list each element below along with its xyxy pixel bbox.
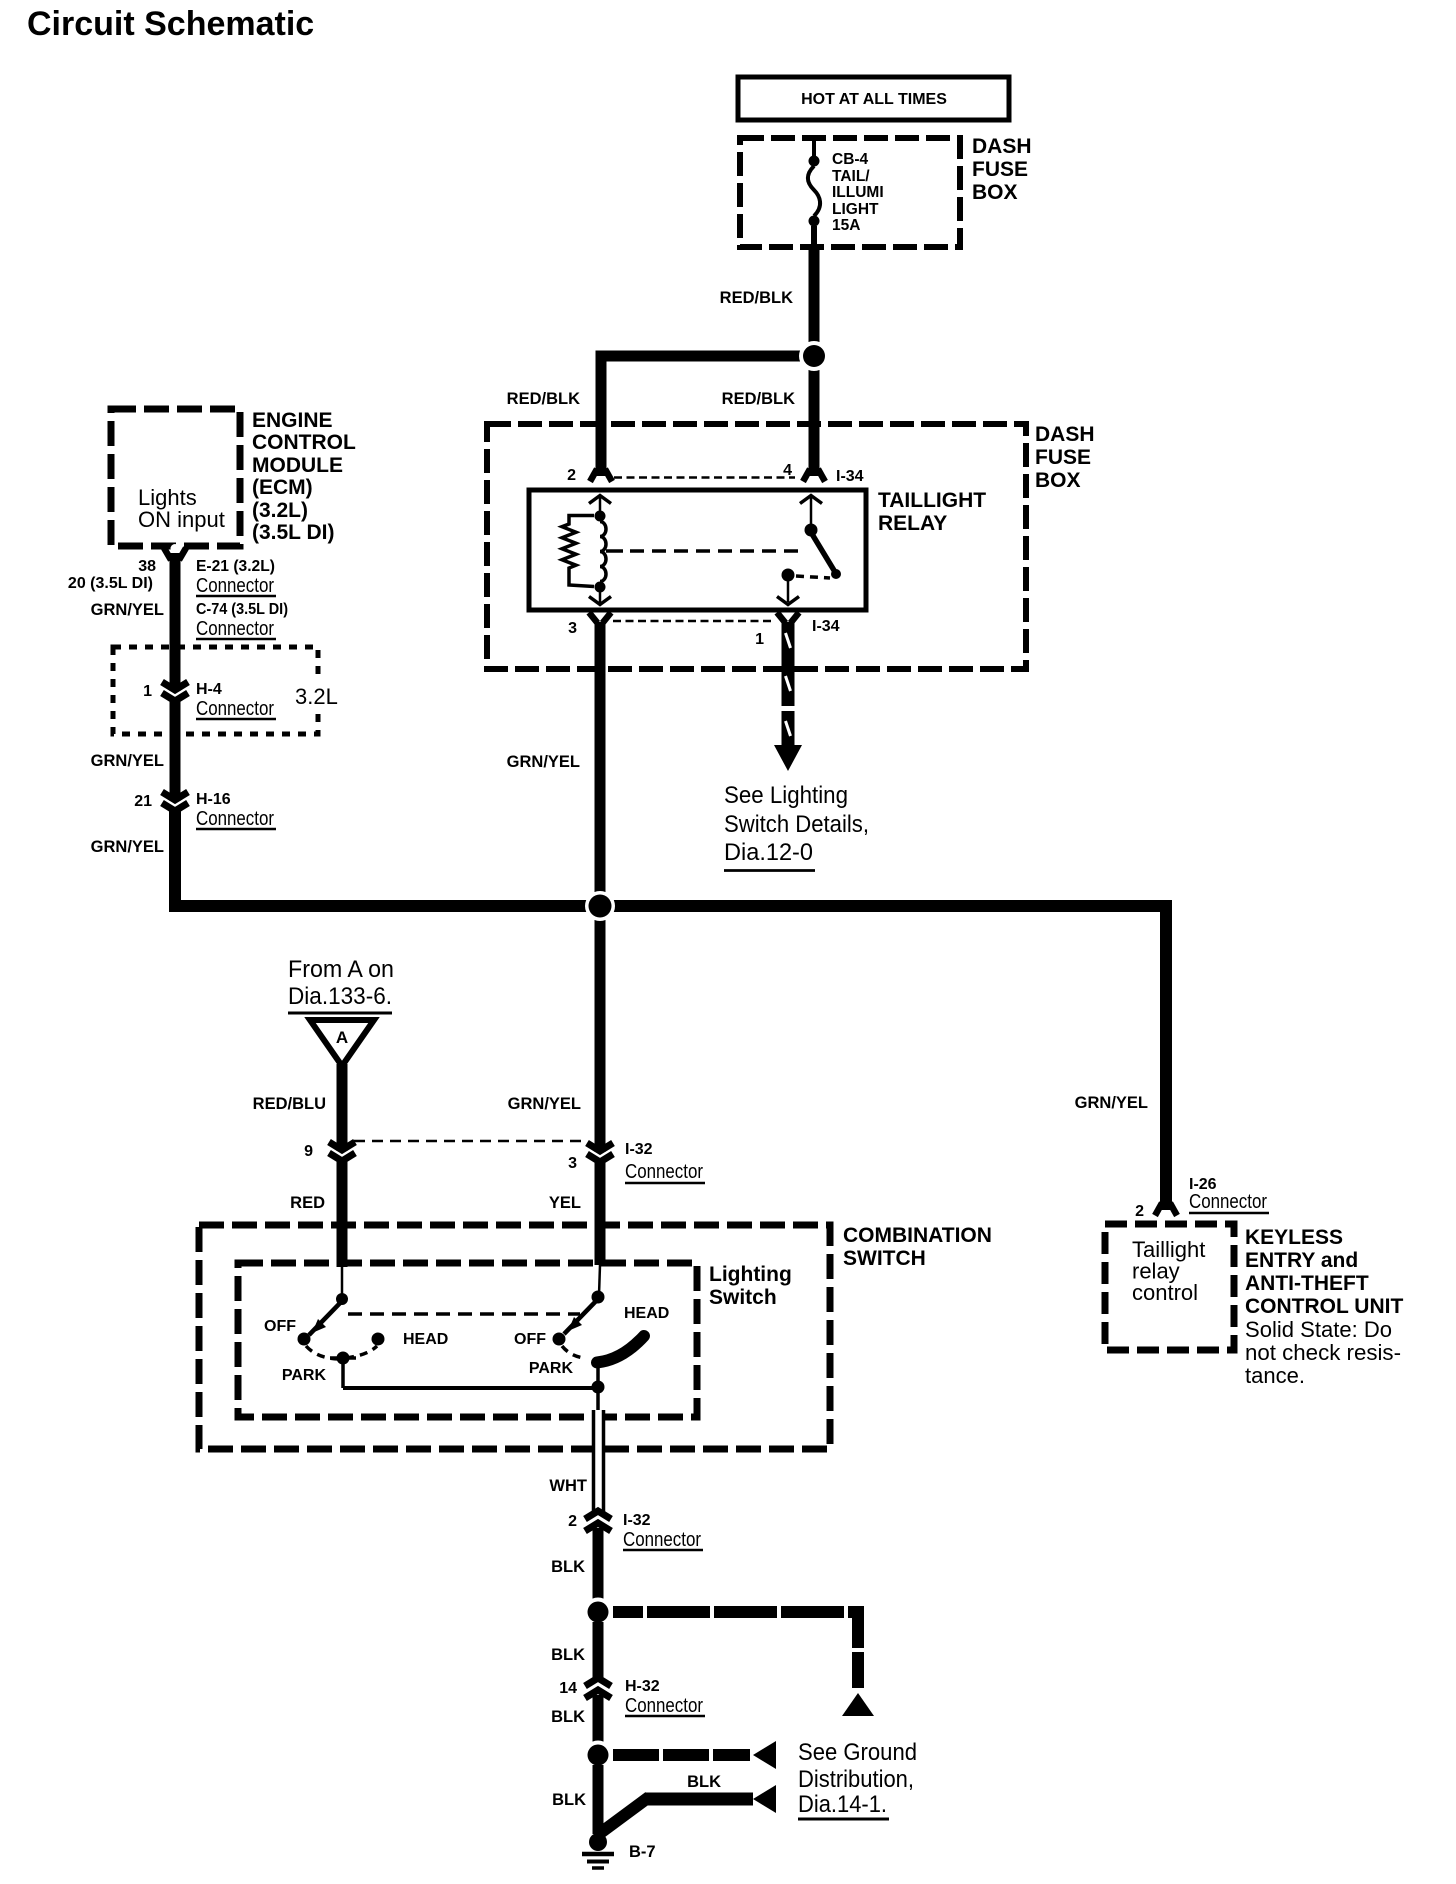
wire label RED/BLK (left branch)	[507, 390, 580, 408]
pin label 3 (I-32)	[568, 1155, 577, 1172]
svg-text:ANTI-THEFT: ANTI-THEFT	[1245, 1272, 1369, 1295]
svg-text:Connector: Connector	[1189, 1190, 1267, 1213]
right pole HEAD label	[624, 1305, 669, 1322]
connector label C-74 (3.5L DI) Connector	[196, 601, 288, 640]
keyless entry control unit box	[1105, 1224, 1234, 1350]
pin label 2	[567, 467, 576, 484]
svg-text:14: 14	[559, 1680, 577, 1697]
svg-text:(ECM): (ECM)	[252, 476, 313, 499]
pin label 9	[304, 1143, 313, 1160]
svg-text:20 (3.5L DI): 20 (3.5L DI)	[68, 575, 153, 592]
circuit breaker CB-4	[808, 156, 820, 253]
ground label B-7	[629, 1843, 656, 1861]
svg-text:COMBINATION: COMBINATION	[843, 1224, 992, 1247]
connector H-32	[585, 1678, 611, 1698]
3.2L engine variant box	[113, 647, 318, 734]
svg-text:See Lighting: See Lighting	[724, 782, 848, 809]
pin label 2 (I-26)	[1135, 1203, 1144, 1220]
svg-text:SWITCH: SWITCH	[843, 1247, 926, 1270]
relay resistor (parallel with coil)	[562, 516, 594, 587]
right pole OFF contact	[514, 1331, 566, 1348]
label COMBINATION SWITCH	[843, 1224, 992, 1270]
svg-text:1: 1	[143, 683, 152, 700]
svg-text:9: 9	[304, 1143, 313, 1160]
value label CB-4 TAIL/ILLUMI LIGHT 15A	[832, 151, 884, 234]
svg-text:RED/BLK: RED/BLK	[722, 390, 795, 408]
connector label I-34 (top)	[836, 468, 864, 485]
svg-text:Circuit Schematic: Circuit Schematic	[27, 5, 314, 43]
svg-text:RELAY: RELAY	[878, 512, 947, 535]
pin label 14 (H-32)	[559, 1680, 577, 1697]
svg-text:RED/BLU: RED/BLU	[253, 1095, 326, 1113]
connector pin 9 (I-32)	[329, 1142, 355, 1161]
pin 1 connector (I-34)	[777, 613, 799, 624]
relay switch dashed contact line	[796, 576, 830, 578]
svg-text:BLK: BLK	[551, 1646, 585, 1664]
wire label BLK (branch)	[687, 1773, 721, 1791]
svg-text:A: A	[336, 1028, 348, 1047]
pin label 2 (I-32 lower)	[568, 1513, 577, 1530]
svg-text:2: 2	[1135, 1203, 1144, 1220]
svg-text:HOT AT ALL TIMES: HOT AT ALL TIMES	[801, 91, 947, 108]
left pole dashed travel arc	[306, 1346, 377, 1359]
svg-text:I-32: I-32	[623, 1512, 651, 1529]
svg-text:(3.2L): (3.2L)	[252, 499, 308, 522]
svg-text:C-74 (3.5L DI): C-74 (3.5L DI)	[196, 601, 288, 618]
svg-text:H-16: H-16	[196, 791, 231, 808]
svg-text:Dia.14-1.: Dia.14-1.	[798, 1791, 887, 1818]
wire GRN/YEL from relay pin 3 down to node B	[595, 622, 606, 1152]
svg-text:TAIL/: TAIL/	[832, 168, 870, 185]
dashed connector link pin3-pin1	[613, 620, 774, 623]
connector label I-34 (bottom)	[812, 618, 840, 635]
svg-text:B-7: B-7	[629, 1843, 656, 1861]
note From A on Dia.133-6	[288, 956, 394, 1013]
wire label WHT	[549, 1477, 587, 1495]
svg-text:OFF: OFF	[264, 1318, 296, 1335]
ECM output connector E-21/C-74	[164, 544, 186, 562]
combination switch box	[199, 1225, 830, 1449]
node D junction dot (BLK)	[584, 1741, 613, 1770]
node B junction dot (GRN/YEL bus)	[585, 891, 615, 921]
connector label I-32 Connector	[625, 1141, 705, 1183]
wire label GRN/YEL (ECM)	[91, 601, 164, 619]
wire label GRN/YEL (below H-4)	[91, 752, 164, 770]
relay coil bottom node	[595, 582, 606, 593]
label 3.2L	[291, 682, 343, 709]
dash fuse box (upper)	[740, 138, 960, 247]
node A junction dot	[799, 341, 829, 371]
svg-text:PARK: PARK	[282, 1367, 327, 1384]
left pole PARK contact	[282, 1352, 356, 1385]
wire BLK from node C to H-32	[593, 1622, 604, 1681]
wire GRN/YEL from ECM to H-4	[170, 556, 181, 691]
svg-text:RED/BLK: RED/BLK	[720, 289, 793, 307]
svg-text:2: 2	[567, 467, 576, 484]
right pole dashed travel arc	[562, 1346, 584, 1358]
svg-text:3.2L: 3.2L	[295, 684, 338, 709]
svg-text:H-32: H-32	[625, 1678, 660, 1695]
relay coil winding	[600, 522, 606, 582]
svg-text:OFF: OFF	[514, 1331, 546, 1348]
svg-text:ENGINE: ENGINE	[252, 409, 333, 432]
connector label I-26 Connector	[1189, 1176, 1269, 1213]
svg-text:GRN/YEL: GRN/YEL	[1075, 1094, 1148, 1112]
svg-text:GRN/YEL: GRN/YEL	[507, 753, 580, 771]
svg-text:RED/BLK: RED/BLK	[507, 390, 580, 408]
dashed BLK branch wire from node D to ground distribution	[613, 1749, 750, 1761]
off-page triangle (up) at end of dashed branch	[842, 1693, 874, 1716]
wire label RED	[290, 1194, 325, 1212]
label DASH FUSE BOX (lower)	[1035, 423, 1095, 492]
relay coil top node	[595, 511, 606, 522]
BLK branch wire to ground distribution (lower)	[599, 1797, 753, 1834]
svg-text:H-4: H-4	[196, 681, 222, 698]
connector label E-21 (3.2L) Connector	[196, 558, 276, 597]
relay switch contact node (pin 1 side)	[782, 569, 795, 582]
svg-text:Connector: Connector	[196, 697, 274, 720]
svg-text:CONTROL UNIT: CONTROL UNIT	[1245, 1295, 1403, 1318]
relay switch output arrow (pin 1 side)	[777, 581, 799, 605]
svg-text:2: 2	[568, 1513, 577, 1530]
wire label BLK (2)	[551, 1646, 585, 1664]
wire label BLK (4, left of ground)	[552, 1791, 586, 1809]
svg-text:Dia.12-0: Dia.12-0	[724, 839, 813, 866]
svg-text:WHT: WHT	[549, 1477, 587, 1495]
off-page wire from pin 1 (with white hatch marks)	[786, 622, 791, 746]
connector label H-16 Connector	[196, 791, 276, 830]
svg-text:38: 38	[138, 558, 156, 575]
svg-text:HEAD: HEAD	[624, 1305, 669, 1322]
svg-text:See Ground: See Ground	[798, 1739, 917, 1766]
wire label GRN/YEL (above I-32)	[508, 1095, 581, 1113]
svg-text:I-32: I-32	[625, 1141, 653, 1158]
svg-text:MODULE: MODULE	[252, 454, 343, 477]
label Taillight relay control	[1132, 1237, 1205, 1305]
svg-text:ILLUMI: ILLUMI	[832, 184, 884, 201]
svg-text:Connector: Connector	[196, 807, 274, 830]
connector label I-32 Connector (lower)	[623, 1512, 703, 1551]
svg-text:TAILLIGHT: TAILLIGHT	[878, 489, 986, 512]
svg-text:15A: 15A	[832, 217, 860, 234]
relay mechanical linkage (dashed)	[606, 549, 806, 553]
connector pin 3 (I-32)	[587, 1143, 613, 1162]
connector H-4	[162, 682, 188, 701]
svg-text:BLK: BLK	[551, 1558, 585, 1576]
ground node dot	[589, 1833, 607, 1851]
pin 2 connector (I-34)	[590, 466, 612, 486]
wire BLK from node D to ground	[593, 1765, 604, 1834]
svg-text:E-21 (3.2L): E-21 (3.2L)	[196, 558, 275, 575]
wire RED/BLK branch from node A left and down to relay pin 2	[601, 356, 814, 471]
svg-text:not check resis-: not check resis-	[1245, 1340, 1401, 1365]
wire label GRN/YEL (below H-16)	[91, 838, 164, 856]
svg-text:Dia.133-6.: Dia.133-6.	[288, 983, 392, 1010]
svg-text:LIGHT: LIGHT	[832, 201, 879, 218]
gang linkage dashed line	[348, 1312, 580, 1316]
title Circuit Schematic	[27, 5, 314, 43]
lighting switch box	[238, 1263, 697, 1417]
svg-text:CONTROL: CONTROL	[252, 431, 356, 454]
svg-text:Connector: Connector	[625, 1694, 703, 1717]
svg-text:From A on: From A on	[288, 956, 394, 983]
svg-text:control: control	[1132, 1280, 1198, 1305]
wire RED from connector 9 to lighting switch	[337, 1158, 348, 1267]
svg-text:YEL: YEL	[549, 1194, 581, 1212]
wire BLK from I-32 to node C	[593, 1528, 604, 1612]
svg-text:Switch: Switch	[709, 1286, 777, 1309]
wire WHT (hollow) from lighting switch to I-32 pin 2	[592, 1410, 605, 1512]
svg-text:I-34: I-34	[812, 618, 840, 635]
wire RED/BLU from triangle A to connector 9	[337, 1064, 348, 1151]
ground symbol B-7	[582, 1854, 614, 1868]
svg-text:Lighting: Lighting	[709, 1263, 792, 1286]
svg-text:Connector: Connector	[623, 1528, 701, 1551]
label ENGINE CONTROL MODULE (ECM) (3.2L) (3.5L DI)	[252, 409, 356, 544]
label Lighting Switch	[709, 1263, 792, 1309]
dashed connector link 9 to 3 (I-32)	[354, 1140, 588, 1143]
pin label 38	[138, 558, 156, 575]
wire RED/BLK from CB-4 down through node A to relay pin 4	[809, 249, 820, 471]
svg-text:BOX: BOX	[1035, 469, 1081, 492]
wire label YEL	[549, 1194, 581, 1212]
switch output node	[343, 1360, 605, 1410]
relay coil input arrow (pin 2 side)	[589, 496, 611, 515]
svg-text:Connector: Connector	[196, 574, 274, 597]
connector pin 2 (I-32, lower)	[585, 1511, 611, 1531]
svg-text:GRN/YEL: GRN/YEL	[508, 1095, 581, 1113]
dash fuse box (lower, around taillight relay)	[487, 424, 1026, 669]
engine control module box	[111, 409, 240, 546]
label TAILLIGHT RELAY	[878, 489, 986, 535]
svg-text:BOX: BOX	[972, 181, 1018, 204]
wire YEL from connector 3 to lighting switch	[595, 1159, 606, 1265]
connector H-16	[162, 792, 188, 811]
pin label 1 (H-4)	[143, 683, 152, 700]
relay switch movable arm	[812, 534, 841, 579]
svg-text:1: 1	[755, 631, 764, 648]
svg-text:BLK: BLK	[551, 1708, 585, 1726]
connector label H-32 Connector	[625, 1678, 705, 1717]
connector label H-4 Connector	[196, 681, 276, 720]
power source label HOT AT ALL TIMES	[738, 77, 1009, 120]
note Solid State: Do not check resistance	[1245, 1317, 1401, 1388]
svg-text:RED: RED	[290, 1194, 325, 1212]
label DASH FUSE BOX (upper)	[972, 135, 1032, 204]
wire label GRN/YEL (right branch)	[1075, 1094, 1148, 1112]
right pole switch arm	[564, 1299, 598, 1334]
arrowhead (ground distribution, lower)	[753, 1785, 776, 1813]
label KEYLESS ENTRY and ANTI-THEFT CONTROL UNIT	[1245, 1226, 1403, 1318]
wire label RED/BLK (right branch)	[722, 390, 795, 408]
taillight relay box	[529, 490, 866, 610]
wire label GRN/YEL (center)	[507, 753, 580, 771]
left pole HEAD contact	[372, 1331, 449, 1348]
right pole PARK label	[529, 1360, 574, 1377]
pin label 3	[568, 620, 577, 637]
svg-text:ON input: ON input	[138, 507, 225, 532]
wire label RED/BLK (above node A)	[720, 289, 793, 307]
svg-text:FUSE: FUSE	[1035, 446, 1091, 469]
svg-text:KEYLESS: KEYLESS	[1245, 1226, 1343, 1249]
svg-text:Switch Details,: Switch Details,	[724, 811, 869, 838]
right pole PARK-HEAD wiper contact (crescent)	[597, 1336, 644, 1363]
wire label BLK (1)	[551, 1558, 585, 1576]
wire from box edge into circuit breaker	[812, 138, 816, 157]
wire GRN/YEL from H-4 to H-16	[170, 697, 181, 801]
pin label 20 (3.5L DI)	[68, 575, 153, 592]
svg-text:PARK: PARK	[529, 1360, 574, 1377]
label Lights ON input	[138, 485, 225, 532]
wire BLK from H-32 to node D	[593, 1695, 604, 1755]
svg-text:FUSE: FUSE	[972, 158, 1028, 181]
left pole input lead	[336, 1265, 348, 1305]
bus wire GRN/YEL from H-16 down, across to keyless entry unit	[175, 807, 1166, 1203]
left pole OFF contact	[264, 1318, 311, 1346]
note See Lighting Switch Details Dia.12-0	[724, 782, 869, 871]
svg-text:HEAD: HEAD	[403, 1331, 448, 1348]
relay switch common arrow (pin 4 side)	[800, 496, 822, 526]
svg-text:3: 3	[568, 620, 577, 637]
pin label 4	[783, 462, 792, 479]
dashed connector link pin2-pin4	[614, 476, 795, 479]
wire label BLK (3)	[551, 1708, 585, 1726]
svg-text:Connector: Connector	[196, 617, 274, 640]
svg-text:Connector: Connector	[625, 1160, 703, 1183]
right pole input lead	[592, 1265, 605, 1304]
svg-text:ENTRY and: ENTRY and	[1245, 1249, 1358, 1272]
arrowhead to lighting switch details	[774, 745, 802, 771]
svg-text:21: 21	[134, 793, 152, 810]
pin label 1	[755, 631, 764, 648]
svg-text:GRN/YEL: GRN/YEL	[91, 838, 164, 856]
pin 4 connector (I-34)	[803, 466, 825, 486]
svg-text:DASH: DASH	[972, 135, 1032, 158]
svg-text:Solid State: Do: Solid State: Do	[1245, 1317, 1392, 1342]
svg-text:Distribution,: Distribution,	[798, 1766, 914, 1793]
relay coil output arrow (pin 3 side)	[589, 589, 611, 605]
connector I-26	[1155, 1200, 1177, 1220]
node C junction dot (BLK)	[584, 1598, 613, 1627]
svg-text:GRN/YEL: GRN/YEL	[91, 601, 164, 619]
arrowhead (ground distribution, upper)	[753, 1741, 776, 1769]
svg-text:BLK: BLK	[687, 1773, 721, 1791]
svg-text:3: 3	[568, 1155, 577, 1172]
svg-text:BLK: BLK	[552, 1791, 586, 1809]
left pole switch arm	[309, 1301, 342, 1335]
dashed BLK branch wire from node C to triangle	[613, 1610, 864, 1691]
svg-text:tance.: tance.	[1245, 1363, 1305, 1388]
svg-text:CB-4: CB-4	[832, 151, 869, 168]
relay switch pivot node	[805, 524, 818, 537]
pin label 21 (H-16)	[134, 793, 152, 810]
off-page source triangle A	[310, 1020, 374, 1066]
svg-text:GRN/YEL: GRN/YEL	[91, 752, 164, 770]
svg-text:DASH: DASH	[1035, 423, 1095, 446]
svg-text:(3.5L DI): (3.5L DI)	[252, 521, 334, 544]
wire label RED/BLU	[253, 1095, 326, 1113]
pin 3 connector (I-34)	[589, 613, 611, 624]
svg-text:I-34: I-34	[836, 468, 864, 485]
note See Ground Distribution Dia.14-1	[798, 1739, 917, 1819]
